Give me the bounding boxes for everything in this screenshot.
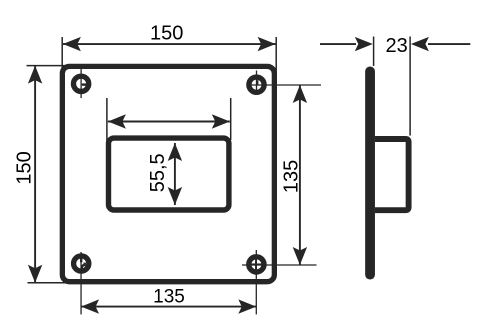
svg-text:150: 150: [14, 151, 36, 184]
svg-text:23: 23: [385, 35, 407, 57]
svg-text:135: 135: [280, 160, 302, 193]
svg-text:150: 150: [150, 22, 183, 44]
svg-text:55,5: 55,5: [147, 153, 169, 192]
svg-text:135: 135: [153, 286, 185, 307]
